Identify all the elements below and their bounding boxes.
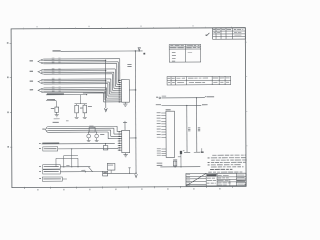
title block middle fields: [217, 176, 236, 178]
cable W4 shield bracket: [38, 88, 44, 93]
resistor R2: [76, 104, 78, 105]
junction node shield W2: [105, 70, 106, 71]
wire W5 d: [48, 131, 108, 133]
junction node on +5V rail: [135, 50, 136, 51]
power arrow terminal between strips: [123, 121, 127, 123]
label return left: [156, 103, 161, 106]
terminal pin pad 1: [119, 80, 121, 81]
ground below R1: [55, 114, 59, 116]
terminal strip TB1 lower: [122, 130, 130, 152]
label wire 1: [188, 126, 190, 129]
terminal pin pad 7: [119, 92, 121, 93]
revision mark /C handwriting: [206, 33, 209, 36]
label +28V: [207, 95, 215, 98]
connector J1 pin 8: [161, 131, 166, 133]
ground symbol below TB1 lower: [125, 153, 127, 155]
varistor RV1: [88, 132, 90, 134]
connector J1 pin lower 3: [161, 152, 166, 154]
wire signal 12 to terminal strip: [44, 91, 103, 93]
terminal pin lower 1: [118, 131, 122, 133]
chassis ground arrow: [104, 108, 107, 112]
+5V terminal arrow: [138, 47, 141, 50]
wire modem select: [60, 166, 90, 168]
cable W5 shield bracket: [45, 127, 48, 133]
connector J1 pin 5: [161, 123, 166, 125]
termination bar 1: [184, 151, 190, 153]
connector J1 pin lower 4: [161, 155, 166, 157]
wire signal 8 to terminal strip: [44, 81, 109, 83]
title block sub divider: [229, 179, 231, 185]
boxed label cable select: [43, 147, 58, 151]
wire shield 4 to shield bus: [44, 88, 106, 90]
label wire 2: [198, 126, 200, 129]
wire line select: [60, 171, 102, 173]
label return right: [202, 103, 208, 106]
terminal pin lower 4: [118, 138, 122, 140]
note 3: [208, 156, 210, 159]
terminal pin pad 2: [119, 82, 121, 83]
connector J1 pin 6: [161, 126, 166, 128]
wire signal 1 to terminal strip: [44, 58, 120, 60]
wire shield 2 to shield bus: [44, 70, 106, 72]
cable W4 label: [30, 89, 33, 90]
ground below R2: [75, 116, 79, 118]
title block right fields: [236, 176, 246, 178]
label +5 VDC: [52, 50, 60, 51]
connector J1 pin 9: [161, 134, 166, 136]
terminal pin pad 9: [119, 95, 121, 96]
terminal pin pad 6: [119, 90, 121, 91]
junction node shield W1: [105, 60, 106, 61]
terminal pin pad 10: [119, 97, 121, 98]
boxed label equip connect: [42, 177, 62, 181]
wire return line: [161, 104, 201, 106]
connector J1 pin 3: [161, 117, 166, 119]
terminal pin pad 12: [119, 101, 121, 102]
cable W3 shield bracket: [38, 79, 44, 84]
boxed label modem select: [43, 165, 61, 169]
note 1: [208, 163, 210, 166]
relay K1: [107, 163, 115, 170]
wire W5 c: [48, 129, 111, 131]
note 2: [208, 161, 210, 164]
node load cell line end: [86, 94, 87, 95]
wire diagonal jog: [88, 167, 92, 172]
capacitor C3: [105, 144, 107, 146]
terminal pin lower 7: [118, 145, 122, 147]
title block logo: [207, 174, 217, 176]
battery B1: [103, 171, 108, 176]
terminal pin lower 2: [118, 133, 122, 135]
connector J1 pin 2: [161, 115, 166, 117]
wire signal 9 to terminal strip: [44, 83, 108, 85]
terminal pin pad 11: [119, 99, 121, 100]
labels left of ground line: [157, 162, 163, 165]
wire signal 3 to terminal strip: [44, 62, 117, 64]
wire W5 b: [48, 127, 114, 129]
wire load cell line: [46, 94, 87, 96]
resistor R1: [56, 101, 58, 107]
wire RC tap: [80, 95, 82, 104]
title block diagonal: [186, 173, 206, 186]
wire +28V line: [161, 97, 204, 99]
wire signal 2 to terminal strip: [44, 61, 118, 63]
wire equip stub: [62, 178, 66, 180]
label to load cell simulator: [83, 92, 106, 93]
varistor RV2: [96, 132, 98, 134]
cable W3 label: [30, 81, 33, 82]
wire shield 3 to shield bus: [44, 80, 106, 82]
note bold: [210, 169, 214, 170]
boxed label line select: [43, 170, 61, 174]
polarized capacitor C5: [180, 151, 182, 167]
wire bottom rail: [103, 172, 136, 174]
reference designation table: [169, 44, 201, 62]
connector J1 pin lower 2: [161, 150, 166, 152]
wire shield bus: [105, 60, 107, 108]
notes heading: [208, 171, 211, 174]
note 1 line 2: [211, 166, 217, 169]
wire signal 6 to terminal strip: [44, 73, 112, 75]
terminal pin pad 4: [119, 86, 121, 87]
label A/D converter assy: [212, 154, 216, 157]
ground below C2: [83, 116, 87, 118]
wire K1 down: [110, 170, 112, 173]
cable W2 shield bracket: [38, 69, 44, 74]
connector J1 pin lower 1: [161, 148, 166, 150]
wire signal 10 to terminal strip: [44, 87, 106, 89]
terminal pin lower 3: [118, 135, 122, 137]
revision block table: [213, 28, 246, 39]
junction node shield W3: [105, 80, 106, 81]
terminal circles at +28V left: [159, 97, 161, 99]
title block signature rows: [186, 175, 206, 177]
wire W5 a: [48, 125, 117, 127]
wire ground line right: [160, 166, 200, 168]
wire cable select: [58, 148, 118, 150]
label below R1: [54, 117, 60, 120]
wire signal 11 to terminal strip: [44, 90, 105, 92]
termination bar 2: [194, 151, 200, 153]
wire bus from +5V rail down to bottom rail: [134, 51, 137, 173]
connector J1 pin 1: [161, 112, 166, 114]
connector J1 pin 10: [161, 137, 166, 139]
junction node at +5V arrow: [138, 50, 139, 51]
label load cell: [47, 93, 64, 94]
connector J1: [166, 111, 175, 157]
wire vertical to A/D 1: [186, 105, 188, 152]
junction node shield W4: [105, 89, 106, 90]
wire sense line: [46, 100, 56, 102]
wire TB1 to bus: [129, 89, 135, 91]
label above W5: [53, 121, 59, 124]
label sense: [47, 98, 55, 101]
wire TB1 lower to bus: [130, 137, 136, 139]
ground arrow at bus bottom: [135, 174, 138, 177]
capacitor C2: [84, 104, 86, 105]
ground symbol below TB1 upper: [124, 102, 126, 104]
terminal pin pad 8: [119, 94, 121, 95]
capacitor C4 vertical: [129, 168, 131, 173]
connector J1 pin 7: [161, 128, 166, 130]
label above TB1: [127, 63, 131, 66]
label RV2: [100, 133, 104, 136]
terminal pin lower 9: [118, 149, 122, 151]
terminal pin lower 6: [118, 142, 122, 144]
label R2 C2: [80, 107, 83, 110]
stub wire 3: [201, 148, 203, 152]
wire signal 4 to terminal strip: [44, 68, 115, 70]
label R1: [51, 107, 54, 110]
terminal pad E1: [143, 53, 145, 55]
wire vertical to A/D 2: [196, 98, 198, 152]
wire signal 5 to terminal strip: [44, 71, 114, 73]
terminal pin lower 5: [118, 140, 122, 142]
label on shield line: [42, 143, 59, 144]
terminal pin pad 3: [119, 84, 121, 85]
terminal strip TB1 upper: [121, 79, 129, 102]
title block: [186, 173, 246, 186]
note 3 line 2: [211, 159, 215, 162]
wire +5V rail: [61, 50, 143, 52]
connector J1 pin 4: [161, 120, 166, 122]
cable W1 label: [30, 60, 33, 61]
terminal pin lower 8: [118, 147, 122, 149]
wire signal 7 to terminal strip: [44, 78, 111, 80]
node bus bottom: [135, 173, 136, 174]
parts list table: [167, 76, 231, 85]
label C1: [173, 158, 177, 161]
capacitor C1: [174, 161, 176, 167]
wire jumper ladder: [64, 154, 78, 156]
cable W1 shield bracket: [38, 59, 44, 64]
terminal pin pad 5: [119, 88, 121, 89]
cable W2 label: [30, 71, 33, 72]
label J1: [166, 108, 171, 111]
flag at +28V right end: [204, 96, 206, 98]
wire shield 1 to shield bus: [44, 59, 106, 61]
cable W5 label: [42, 128, 45, 131]
wire load cell shield line: [42, 143, 115, 145]
component Z1 on W5: [89, 127, 95, 132]
